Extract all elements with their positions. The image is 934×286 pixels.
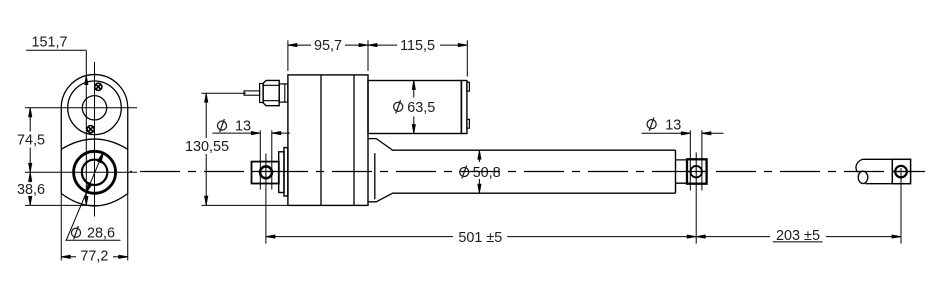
dimension 501 ±5 — [266, 153, 696, 244]
front clevis block bold — [687, 159, 707, 183]
hex boss bottom arc — [61, 194, 128, 206]
vertical centerline left view — [94, 62, 96, 217]
svg-text:13: 13 — [665, 118, 681, 134]
dimension 151,7 — [26, 50, 86, 205]
rear clevis hole bold — [260, 166, 272, 178]
cable gland dome — [260, 84, 264, 103]
axis solid segment at rear clevis — [258, 171, 276, 173]
rod end block — [892, 159, 910, 183]
rod end eye bold — [895, 166, 907, 178]
hex boss top arc — [61, 139, 128, 149]
rear flange plate 2 — [284, 148, 288, 196]
dimension 115,5 — [368, 40, 467, 76]
rear flange plate 1 — [279, 152, 284, 193]
svg-text:50,8: 50,8 — [473, 165, 501, 181]
horizontal centerline rod-end — [25, 171, 137, 173]
dimension Ø 50,8 — [478, 150, 480, 193]
svg-text:203 ±5: 203 ±5 — [776, 228, 820, 244]
svg-text:13: 13 — [235, 119, 251, 135]
dimension Ø 63,5 — [413, 81, 415, 134]
stadium left side edge — [60, 108, 62, 194]
head circle — [68, 81, 122, 135]
axis solid segment at front clevis — [688, 171, 706, 173]
dimension Ø 13 front — [642, 130, 724, 190]
gearbox body — [288, 75, 368, 206]
motor end cap — [462, 81, 467, 134]
svg-text:501 ±5: 501 ±5 — [458, 230, 502, 246]
extension line bottom flat — [25, 204, 95, 206]
screw S1 top — [95, 83, 102, 90]
svg-text:115,5: 115,5 — [400, 38, 435, 54]
main axis centerline dash-dot — [130, 171, 925, 173]
dimension 203 ±5 — [696, 168, 901, 244]
stadium right side edge — [127, 108, 129, 194]
svg-text:63,5: 63,5 — [407, 100, 435, 116]
dimension 74,5 / 38,6 — [29, 108, 31, 206]
svg-text:130,55: 130,55 — [185, 139, 229, 155]
leader dimension Ø 28,6 — [65, 153, 120, 240]
front clevis hole bold — [690, 166, 702, 178]
dimension Ø 13 rear — [212, 130, 290, 189]
svg-text:77,2: 77,2 — [80, 248, 108, 264]
extended rod cylinder bottom — [866, 183, 893, 185]
gearbox panel line 2 — [353, 75, 355, 206]
outer tube top — [392, 149, 676, 151]
cable gland nut — [263, 80, 279, 105]
motor terminal tab top — [467, 82, 470, 91]
collar step top — [368, 139, 392, 151]
dimension 77,2 — [61, 194, 128, 260]
rear clevis block — [252, 162, 279, 184]
motor terminal tab bottom — [467, 119, 470, 128]
screw S2 bottom — [87, 126, 94, 133]
dimension 95,7 — [288, 40, 368, 71]
cable gland pin — [244, 91, 260, 95]
svg-text:95,7: 95,7 — [314, 38, 342, 54]
svg-text:74,5: 74,5 — [17, 132, 45, 148]
cable gland collar — [279, 84, 288, 102]
motor body — [368, 81, 461, 134]
outer tube bottom — [392, 192, 676, 194]
stadium outline top arc — [61, 75, 128, 108]
collar step bottom — [368, 193, 392, 202]
collar inner face — [374, 153, 376, 199]
svg-text:28,6: 28,6 — [87, 226, 115, 242]
piston rod neck — [676, 160, 688, 183]
head hole circle — [82, 96, 106, 120]
gearbox panel line 1 — [320, 75, 322, 206]
outer tube end — [675, 150, 677, 193]
axis solid segment at rod end eye — [893, 171, 913, 173]
rod-end outer bold circle — [74, 151, 116, 193]
rod break symbol — [856, 159, 863, 172]
horizontal centerline head — [25, 107, 137, 109]
svg-text:38,6: 38,6 — [17, 182, 45, 198]
dimension 130,55 — [202, 93, 288, 205]
extended rod cylinder top — [863, 158, 893, 160]
svg-text:151,7: 151,7 — [31, 35, 67, 51]
rod-end inner bold circle — [82, 160, 108, 186]
